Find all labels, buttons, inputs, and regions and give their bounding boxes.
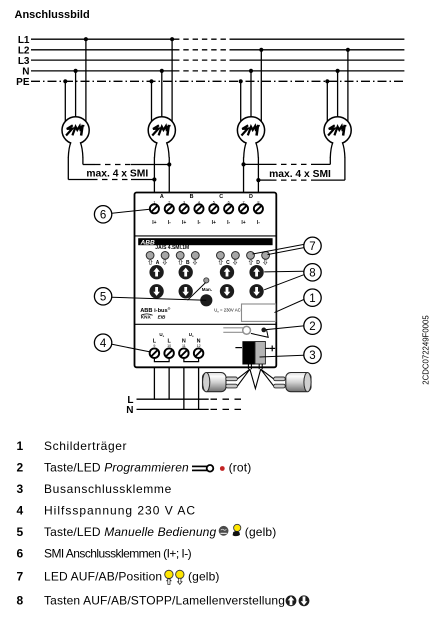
- callout leader 8b: [264, 275, 303, 290]
- wire M3 SMI down to terminal 8: [257, 157, 259, 192]
- wire rail L2 solid left: [31, 49, 174, 51]
- callout leader 2: [251, 326, 304, 337]
- wire SMI bus left I- dashed: [95, 164, 131, 166]
- svg-text:2CDC072249F0005: 2CDC072249F0005: [421, 315, 430, 385]
- wire M1 SMI I+ down: [67, 157, 69, 179]
- legend icon manual button: [219, 526, 229, 536]
- wire M1 SMI I- down: [82, 157, 84, 164]
- terminal screw 1: [150, 204, 159, 213]
- callout leader 3: [260, 355, 304, 357]
- svg-text:4: 4: [17, 504, 24, 518]
- wire terminal 11 down: [183, 367, 185, 409]
- svg-text:LED AUF/AB/Position: LED AUF/AB/Position: [44, 570, 162, 584]
- button AB channel A: [149, 284, 163, 298]
- wire M4 SMI I- down: [329, 157, 331, 164]
- bus terminal side stub: [265, 347, 269, 349]
- junction dot right upper: [241, 162, 245, 166]
- callout leader 7a: [253, 244, 304, 254]
- wire SMI bus left I+ dashed: [92, 179, 131, 181]
- channel B arrow labels: [179, 259, 197, 264]
- wire SMI bus right lower: [258, 179, 271, 181]
- junction dot M3-PE: [239, 79, 243, 83]
- wire motor M1 L1 feed: [85, 39, 87, 130]
- junction dot M3-N: [249, 69, 253, 73]
- svg-text:2: 2: [168, 200, 170, 204]
- svg-text:Us: Us: [159, 332, 164, 338]
- wire rail N solid right: [230, 70, 405, 72]
- svg-text:7: 7: [309, 241, 315, 253]
- svg-text:1: 1: [309, 293, 315, 305]
- bus terminal stub wire: [235, 347, 242, 349]
- label holder pull tab: [223, 327, 243, 329]
- legend icon programming button: [192, 465, 213, 472]
- svg-text:I+: I+: [152, 220, 156, 226]
- bracket terminals 9-10: [154, 358, 169, 362]
- svg-text:N: N: [22, 67, 29, 78]
- motor M4 SMI drive: [324, 117, 351, 144]
- wire M3 SMI down to terminal 7: [243, 157, 245, 192]
- wire SMI bus right upper: [244, 163, 271, 165]
- junction dot M4-L2: [346, 48, 350, 52]
- wire N supply dashed: [211, 408, 243, 410]
- wire bus terminal to cables: [238, 369, 274, 388]
- device front panel bottom edge: [135, 323, 277, 325]
- motor M2 SMI drive: [148, 117, 175, 144]
- callout leader 7b: [268, 248, 304, 255]
- svg-text:I-: I-: [227, 220, 230, 226]
- svg-text:(gelb): (gelb): [245, 525, 277, 539]
- callout 4: [94, 334, 111, 351]
- callout leader 8a: [264, 270, 303, 273]
- svg-text:I+: I+: [182, 220, 186, 226]
- terminal screw 3: [180, 204, 189, 213]
- programming button ring: [243, 326, 251, 334]
- terminal screw 12: [194, 348, 204, 358]
- callout 5: [94, 288, 111, 305]
- callout leader 4: [112, 344, 149, 352]
- wire M2 SMI I+ down to terminal 1: [153, 157, 155, 192]
- svg-text:8: 8: [257, 200, 259, 204]
- motor M4 cable gland: [330, 142, 345, 157]
- svg-text:EIB: EIB: [158, 315, 166, 320]
- svg-text:8: 8: [17, 593, 24, 607]
- svg-text:2: 2: [17, 461, 24, 475]
- junction dot M4-N: [336, 69, 340, 73]
- device front panel top edge: [135, 235, 277, 237]
- callout 8: [304, 264, 321, 281]
- wire rail N dashed middle: [174, 70, 230, 72]
- terminal screw 4: [194, 204, 203, 213]
- motor M2 cable gland: [155, 142, 170, 157]
- junction dot M1-PE: [63, 79, 67, 83]
- wire rail L2 dashed middle: [174, 49, 230, 51]
- svg-text:4: 4: [100, 338, 107, 350]
- wire rail L3 dashed middle: [174, 59, 230, 61]
- button AUF channel B: [179, 265, 193, 279]
- junction dot right lower: [256, 178, 260, 182]
- LED manual operation: [204, 278, 209, 283]
- svg-text:2: 2: [309, 321, 315, 333]
- LED position channel A up: [146, 252, 154, 260]
- bus terminal (Busanschlussklemme) black half: [242, 341, 255, 364]
- button AUF channel C: [220, 265, 234, 279]
- wire terminal 10 down: [168, 367, 170, 399]
- LED position channel B down: [191, 252, 199, 260]
- terminal screw 6: [224, 204, 233, 213]
- svg-text:max. 4 x SMI: max. 4 x SMI: [86, 169, 148, 180]
- LED position channel C up: [217, 252, 225, 260]
- button manual operation: [200, 294, 212, 306]
- svg-text:I-: I-: [168, 220, 171, 226]
- svg-text:D: D: [249, 194, 253, 200]
- svg-text:(rot): (rot): [229, 461, 252, 475]
- svg-text:5: 5: [17, 525, 24, 539]
- svg-text:9: 9: [153, 344, 155, 348]
- terminal screw 2: [165, 204, 174, 213]
- wire L supply: [137, 398, 209, 400]
- wire rail N solid left: [31, 70, 174, 72]
- button AUF channel D: [249, 265, 263, 279]
- callout leader 5: [112, 297, 206, 300]
- callout leader 1: [275, 300, 304, 313]
- wire rail L3 solid right: [230, 59, 405, 61]
- svg-text:Busanschlussklemme: Busanschlussklemme: [44, 482, 172, 496]
- KNX logo: [141, 314, 153, 320]
- legend icon programming LED (red): [220, 466, 225, 471]
- wire motor M3 PE feed: [240, 81, 242, 130]
- button AUF channel A: [149, 265, 163, 279]
- motor M1 SMI drive: [62, 117, 89, 144]
- callout 2: [304, 317, 321, 334]
- motor M1 cable gland: [68, 142, 83, 157]
- wire rail L1 solid left: [31, 38, 174, 40]
- svg-text:Un = 230V AC: Un = 230V AC: [214, 308, 241, 314]
- svg-text:ABB: ABB: [140, 239, 156, 246]
- channel D arrow labels: [249, 259, 267, 264]
- junction dot M3-L2: [259, 48, 263, 52]
- wire SMI bus left I- to junction: [131, 164, 169, 166]
- bus cable left: [203, 373, 238, 392]
- svg-text:max. 4 x SMI: max. 4 x SMI: [269, 169, 331, 180]
- wire rail L1 dashed middle: [174, 38, 230, 40]
- wire SMI bus left I+: [68, 179, 92, 181]
- svg-text:B: B: [190, 194, 194, 200]
- svg-text:3: 3: [17, 482, 24, 496]
- wire rail L2 solid right: [230, 49, 405, 51]
- svg-text:7: 7: [242, 200, 244, 204]
- ABB logo bar: [138, 238, 272, 245]
- wire motor M3 N feed: [250, 71, 252, 130]
- bus terminal legs: [248, 364, 262, 369]
- terminal screw 10: [164, 348, 174, 358]
- junction dot M4-PE: [325, 79, 329, 83]
- svg-text:6: 6: [100, 209, 106, 221]
- svg-text:PE: PE: [16, 77, 30, 88]
- terminal screw 7: [239, 204, 248, 213]
- wire terminal 12 down: [198, 367, 200, 409]
- svg-text:5: 5: [213, 200, 215, 204]
- wire SMI bus left I+ to junction: [131, 179, 154, 181]
- legend icon button down: [299, 595, 310, 606]
- svg-text:Tasten AUF/AB/STOPP/Lamellenve: Tasten AUF/AB/STOPP/Lamellenverstellung: [44, 593, 285, 607]
- wire motor M2 N feed: [161, 71, 163, 130]
- wire rail L3 solid left: [31, 59, 174, 61]
- svg-text:Taste/LED Manuelle Bedienung: Taste/LED Manuelle Bedienung: [44, 525, 216, 539]
- svg-text:I-: I-: [197, 220, 200, 226]
- device U1 JA/S 4.SMI.1M outline: [135, 193, 277, 368]
- junction dot left I+: [152, 177, 156, 181]
- junction dot M2-L1: [170, 37, 174, 41]
- LED position channel C down: [232, 252, 240, 260]
- svg-text:I+: I+: [241, 220, 245, 226]
- wire motor M4 N feed: [337, 71, 339, 130]
- svg-text:5: 5: [100, 291, 106, 303]
- wire motor M2 PE feed: [151, 81, 153, 130]
- wire motor M4 L2 feed: [347, 50, 349, 131]
- svg-text:Taste/LED Programmieren: Taste/LED Programmieren: [44, 461, 189, 475]
- button AB channel C: [220, 284, 234, 298]
- wire SMI bus right upper dashed: [271, 163, 311, 165]
- svg-text:12: 12: [197, 344, 201, 348]
- label holder (Schildertraeger): [242, 304, 276, 321]
- svg-text:(gelb): (gelb): [188, 570, 220, 584]
- wire SMI bus right lower end: [311, 179, 345, 181]
- wire rail PE dash-dot: [31, 80, 404, 82]
- svg-text:C: C: [219, 194, 223, 200]
- svg-text:3: 3: [309, 350, 315, 362]
- svg-text:6: 6: [17, 547, 24, 561]
- LED position channel B up: [176, 252, 184, 260]
- svg-text:10: 10: [167, 344, 171, 348]
- terminal screw 9: [150, 348, 160, 358]
- LED position channel D up: [247, 252, 255, 260]
- svg-text:L1: L1: [18, 35, 30, 46]
- button AB channel D: [249, 284, 263, 298]
- callout leader 6: [112, 209, 150, 213]
- svg-text:11: 11: [182, 344, 186, 348]
- svg-text:4: 4: [198, 200, 200, 204]
- wire M4 SMI I+ down: [344, 157, 346, 180]
- wire motor M3 L2 feed: [260, 50, 262, 131]
- bracket terminals 11-12: [184, 358, 199, 362]
- svg-text:Man.: Man.: [202, 287, 212, 292]
- junction dot M1-N: [74, 69, 78, 73]
- svg-text:SMI Anschlussklemmen (I+; I-): SMI Anschlussklemmen (I+; I-): [44, 547, 192, 561]
- bus terminal gray half: [255, 342, 265, 365]
- callout 3: [304, 346, 321, 363]
- LED position channel A down: [161, 252, 169, 260]
- programming LED: [261, 328, 266, 333]
- LED position channel D down: [262, 252, 270, 260]
- wire motor M1 PE feed: [64, 81, 66, 130]
- svg-text:ABB i-bus®: ABB i-bus®: [140, 307, 171, 314]
- legend icon manual LED (yellow): [233, 524, 241, 536]
- svg-text:KNX: KNX: [141, 315, 152, 320]
- svg-text:Hilfsspannung 230 V AC: Hilfsspannung 230 V AC: [44, 504, 196, 518]
- callout 1: [304, 289, 321, 306]
- wire SMI bus right lower dashed: [271, 179, 311, 181]
- svg-text:N: N: [126, 405, 133, 416]
- terminal screw 5: [209, 204, 218, 213]
- bus cable right: [274, 373, 312, 392]
- wire motor M1 N feed: [75, 71, 77, 130]
- callout 7: [304, 237, 321, 254]
- motor M3 SMI drive: [237, 117, 264, 144]
- junction dot M2-PE: [149, 79, 153, 83]
- motor M3 cable gland: [244, 142, 259, 157]
- svg-text:Anschlussbild: Anschlussbild: [15, 9, 90, 21]
- wire SMI bus left I-: [83, 164, 95, 166]
- wire SMI bus right upper end: [311, 163, 330, 165]
- channel A arrow labels: [149, 259, 167, 264]
- junction dot M1-L1: [84, 37, 88, 41]
- svg-text:7: 7: [17, 570, 24, 584]
- wire M2 SMI I- down to terminal 2: [168, 157, 170, 192]
- svg-text:8: 8: [309, 267, 315, 279]
- terminal screw 11: [179, 348, 189, 358]
- junction dot left I-: [167, 162, 171, 166]
- terminal screw 8: [254, 204, 263, 213]
- legend icon LED up (yellow): [165, 570, 173, 584]
- svg-text:I-: I-: [257, 220, 260, 226]
- svg-text:JA/S 4.SMI.1M: JA/S 4.SMI.1M: [155, 245, 189, 251]
- svg-text:Schilderträger: Schilderträger: [44, 439, 127, 453]
- wire L supply dashed: [211, 398, 243, 400]
- wire motor M2 L1 feed: [171, 39, 173, 130]
- bus terminal screw cross: [269, 346, 275, 352]
- svg-text:6: 6: [228, 200, 230, 204]
- callout 6: [94, 206, 111, 223]
- legend icon button up: [286, 595, 297, 606]
- svg-text:A: A: [160, 194, 164, 200]
- wire rail L1 solid right: [230, 38, 405, 40]
- svg-text:3: 3: [183, 200, 185, 204]
- svg-text:I+: I+: [212, 220, 216, 226]
- junction dot M2-N: [160, 69, 164, 73]
- callout leader 5 branch to LED: [188, 283, 206, 301]
- svg-text:Us: Us: [189, 332, 194, 338]
- wire motor M4 PE feed: [326, 81, 328, 130]
- svg-text:1: 1: [17, 439, 24, 453]
- channel C arrow labels: [219, 259, 237, 264]
- wire terminal 9 down: [153, 367, 155, 399]
- legend icon LED down (yellow): [176, 570, 184, 584]
- button AB channel B: [179, 284, 193, 298]
- svg-text:L3: L3: [18, 56, 30, 67]
- wire N supply: [137, 408, 209, 410]
- svg-text:1: 1: [153, 200, 155, 204]
